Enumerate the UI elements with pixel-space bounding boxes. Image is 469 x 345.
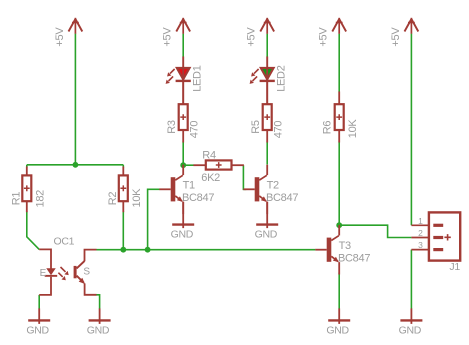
svg-text:J1: J1 [449, 261, 460, 273]
svg-text:R5: R5 [250, 120, 262, 134]
wire OC1 cathode to GND [38, 295, 40, 309]
wire R2 top stub [122, 165, 124, 168]
wire R5 bottom to T2 collector [266, 142, 268, 165]
wire R1 bottom to OC1 anode [27, 211, 39, 249]
resistor R6 bottom lead [338, 130, 340, 143]
svg-text:R2: R2 [107, 192, 119, 206]
svg-text:+5V: +5V [246, 27, 258, 47]
power +5V supply P2 [162, 18, 191, 47]
wire T3 node to J1 pin2 [339, 225, 411, 237]
resistor R1 bottom lead [26, 201, 28, 212]
svg-text:OC1: OC1 [54, 235, 75, 247]
svg-text:+5V: +5V [318, 27, 330, 47]
ground GND [26, 308, 50, 336]
svg-text:E: E [40, 268, 47, 279]
svg-text:470: 470 [189, 121, 201, 139]
OC1 emitter pin [85, 283, 97, 294]
svg-text:+5V: +5V [54, 27, 66, 47]
resistor R4 6K2 [193, 150, 244, 185]
wire R3 bottom to node [182, 142, 184, 166]
svg-text:10K: 10K [347, 119, 359, 139]
resistor R5 470 [250, 104, 285, 138]
resistor R1 top lead [26, 167, 28, 176]
ground GND [326, 308, 350, 336]
power +5V supply P5 [390, 18, 419, 47]
resistor R5 top lead [266, 82, 268, 104]
resistor R3 top lead [182, 82, 184, 104]
svg-text:GND: GND [26, 324, 49, 336]
OC1 LED anode pin [39, 249, 51, 269]
svg-text:GND: GND [87, 324, 110, 336]
wire R2 bottom to node [122, 211, 124, 250]
svg-text:+5V: +5V [390, 27, 402, 47]
transistor T3 BC847 [315, 225, 370, 274]
svg-text:R4: R4 [202, 150, 216, 162]
ground GND [171, 202, 195, 241]
node junction T3 collector [336, 222, 342, 228]
svg-text:GND: GND [326, 324, 349, 336]
svg-text:182: 182 [35, 190, 47, 208]
wire +5V P1 down to rail [74, 34, 76, 165]
svg-text:R3: R3 [166, 120, 178, 134]
svg-text:GND: GND [399, 324, 422, 336]
svg-text:S: S [83, 267, 90, 278]
svg-text:R1: R1 [10, 192, 22, 206]
svg-text:GND: GND [171, 229, 194, 241]
resistor R3 bottom lead [182, 130, 184, 143]
connector J1 [411, 212, 460, 260]
resistor R3 470 [166, 104, 201, 138]
wire OC1 emitter to GND [96, 295, 99, 309]
svg-text:R6: R6 [321, 121, 333, 135]
svg-text:BC847: BC847 [338, 253, 370, 265]
resistor R2 top lead [122, 167, 124, 176]
wire +5V P2 to LED1 [182, 34, 184, 57]
wire +5V P4 to R6 [338, 34, 340, 92]
wire +5V P5 down to J1 pin1 [410, 34, 412, 226]
svg-text:6K2: 6K2 [201, 172, 220, 184]
wire J1 pin3 down to GND [410, 250, 412, 309]
node junction T1-base branch [145, 247, 151, 253]
svg-text:T2: T2 [267, 180, 279, 192]
wire +5V P3 to LED2 [266, 34, 268, 57]
OC1 emitter diagonal with arrow [77, 276, 84, 283]
wire node to R4 left [183, 164, 193, 166]
OC1 light arrow 2 [58, 273, 62, 277]
resistor R2 10K [107, 175, 143, 207]
power +5V supply P3 [246, 18, 275, 47]
wire OC1 collector to T3 base (long net) [96, 249, 315, 251]
resistor R2 bottom lead [122, 201, 124, 212]
ground GND [87, 308, 111, 336]
OC1 light arrow 1 [61, 267, 66, 272]
resistor R1 182 [10, 175, 46, 207]
power +5V supply P1 [54, 18, 83, 47]
OC1 phototransistor body+collector diagonal [74, 261, 85, 278]
wire R1 top stub [26, 165, 28, 168]
node junction R3/R4/T1 collector [180, 162, 186, 168]
svg-text:T3: T3 [339, 240, 351, 252]
svg-text:GND: GND [255, 229, 278, 241]
svg-text:T1: T1 [183, 180, 195, 192]
wire top rail R1 to R2 [27, 164, 124, 166]
svg-text:BC847: BC847 [182, 192, 214, 204]
wire R6 bottom to T3 collector node [338, 142, 340, 225]
OC1 collector pin [85, 250, 97, 262]
resistor R5 bottom lead [266, 130, 268, 143]
wire T3 emitter to GND [338, 273, 340, 309]
node junction +5V rail [73, 162, 79, 168]
ground GND [255, 202, 279, 241]
LED LED1 [166, 57, 204, 105]
svg-text:LED2: LED2 [275, 65, 287, 91]
svg-text:LED1: LED1 [191, 65, 203, 91]
wire node to T1 base [148, 189, 160, 249]
resistor R6 top lead [338, 92, 340, 105]
transistor T1 BC847 [159, 165, 214, 214]
svg-text:BC847: BC847 [266, 192, 298, 204]
resistor R6 10K [321, 104, 359, 138]
svg-text:3: 3 [418, 240, 423, 250]
svg-text:10K: 10K [131, 188, 143, 208]
LED LED2 [250, 57, 288, 105]
node junction R2/base net [120, 247, 126, 253]
svg-text:470: 470 [273, 121, 285, 139]
OC1 LED [47, 269, 55, 275]
wire R4 right down to T2 base [243, 165, 246, 189]
power +5V supply P4 [318, 18, 347, 47]
transistor T2 BC847 [243, 165, 298, 214]
svg-text:2: 2 [418, 228, 423, 238]
svg-text:1: 1 [418, 216, 423, 226]
ground GND [399, 308, 423, 336]
svg-text:+5V: +5V [162, 27, 174, 47]
OC1 LED cathode pin [39, 277, 51, 295]
